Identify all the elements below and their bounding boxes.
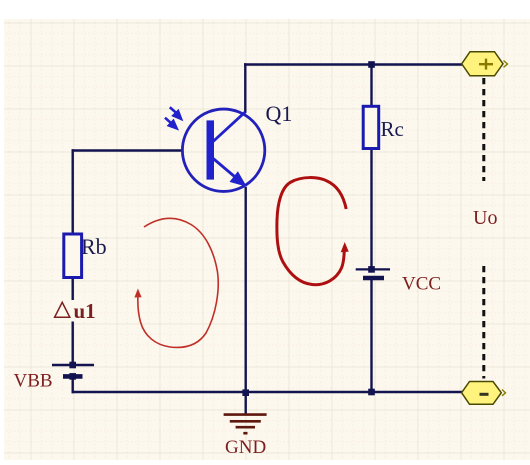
battery VBB xyxy=(52,362,94,380)
light arrows into Q1 xyxy=(165,107,181,128)
resistor Rc xyxy=(363,106,379,148)
svg-text:GND: GND xyxy=(225,437,266,458)
node Uo dashed lead (lower) xyxy=(482,266,485,379)
current loop annotation (right, output loop) xyxy=(277,178,349,285)
resistor Rb xyxy=(64,234,82,278)
transistor Q1 xyxy=(182,109,264,191)
svg-text:Rb: Rb xyxy=(81,234,107,259)
wire: Rc branch top rail to Rc xyxy=(370,64,372,106)
svg-text:VCC: VCC xyxy=(402,274,441,295)
junction: top rail / Rc branch xyxy=(368,61,375,68)
wire: VCC battery to bottom rail xyxy=(370,278,372,392)
svg-text:u1: u1 xyxy=(74,299,96,323)
svg-text:Rc: Rc xyxy=(381,117,404,141)
svg-text:Uo: Uo xyxy=(473,207,497,229)
ground GND xyxy=(224,392,267,433)
port - (output minus) xyxy=(462,382,506,405)
junction: VCC branch / bottom rail xyxy=(368,389,375,396)
svg-text:VBB: VBB xyxy=(14,371,53,392)
wire: bottom rail to - port xyxy=(72,391,463,393)
port + (output plus) xyxy=(462,52,508,76)
wire: top rail from collector corner to + port xyxy=(244,63,462,66)
junction: emitter / bottom rail / GND xyxy=(242,389,249,396)
wire: Rc to VCC battery xyxy=(370,149,372,270)
svg-text:Q1: Q1 xyxy=(266,101,293,126)
wire: VBB battery to bottom rail corner xyxy=(73,376,74,392)
wire: collector drop from top rail into Q1 xyxy=(244,63,246,113)
wire: base wire from left riser to Q1 xyxy=(72,149,183,151)
node Uo dashed lead (upper) xyxy=(482,78,485,181)
wire: left riser down to Rb xyxy=(71,149,73,234)
current loop annotation (left, input loop) xyxy=(134,218,218,347)
wire: emitter down to bottom rail xyxy=(244,187,246,392)
label triangle u1 (delta-u1) xyxy=(52,299,96,323)
wire: Rb to VBB battery xyxy=(71,278,73,366)
battery VCC xyxy=(356,266,390,278)
